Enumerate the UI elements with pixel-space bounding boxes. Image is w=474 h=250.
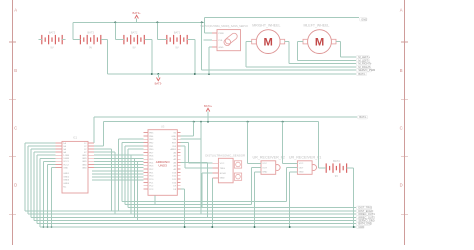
svg-text:BAT3+: BAT3+ bbox=[133, 11, 142, 15]
svg-text:VCC2: VCC2 bbox=[63, 164, 69, 166]
svg-text:MRIGHT_WHEEL: MRIGHT_WHEEL bbox=[252, 23, 280, 27]
svg-text:M: M bbox=[315, 37, 324, 49]
svg-text:TRIG: TRIG bbox=[220, 168, 226, 170]
svg-text:GND: GND bbox=[82, 155, 87, 157]
svg-text:PWR: PWR bbox=[219, 33, 225, 35]
svg-text:C: C bbox=[400, 125, 403, 130]
svg-text:BAT1: BAT1 bbox=[174, 30, 181, 34]
svg-text:SERVO(FUTABA_S3003)_SANS_SERVO: SERVO(FUTABA_S3003)_SANS_SERVO bbox=[200, 24, 248, 28]
svg-text:GND: GND bbox=[82, 167, 87, 169]
svg-text:GND: GND bbox=[82, 158, 87, 160]
svg-text:1-2EN: 1-2EN bbox=[63, 155, 69, 157]
svg-text:BAT3-: BAT3- bbox=[155, 82, 163, 86]
svg-text:D: D bbox=[400, 183, 403, 188]
svg-text:VCC1: VCC1 bbox=[63, 161, 69, 163]
svg-text:ECHO: ECHO bbox=[220, 173, 227, 175]
svg-text:D: D bbox=[14, 183, 17, 188]
svg-text:GND: GND bbox=[171, 136, 176, 138]
svg-text:9V: 9V bbox=[50, 46, 53, 50]
svg-text:BAT3: BAT3 bbox=[87, 30, 94, 34]
svg-text:UR_RECEIVER_#1: UR_RECEIVER_#1 bbox=[289, 155, 321, 159]
svg-text:VIN: VIN bbox=[173, 139, 177, 141]
svg-text:BAT4+: BAT4+ bbox=[204, 104, 213, 108]
svg-text:A: A bbox=[400, 8, 403, 13]
svg-text:DIST(ULTRASONIC_SENSOR: DIST(ULTRASONIC_SENSOR bbox=[205, 153, 245, 157]
svg-text:GND2: GND2 bbox=[63, 176, 70, 178]
svg-text:VCC: VCC bbox=[299, 163, 304, 165]
svg-text:GND1: GND1 bbox=[63, 173, 70, 175]
svg-text:MLEFT_WHEEL: MLEFT_WHEEL bbox=[304, 23, 330, 27]
svg-text:SERVO_PWM: SERVO_PWM bbox=[358, 68, 375, 72]
svg-text:GND3: GND3 bbox=[63, 180, 70, 182]
svg-text:RST: RST bbox=[172, 142, 177, 144]
svg-text:GND4: GND4 bbox=[63, 183, 70, 185]
svg-text:NC: NC bbox=[63, 187, 67, 189]
svg-text:GND: GND bbox=[358, 225, 364, 229]
svg-text:9V: 9V bbox=[175, 46, 178, 50]
svg-text:GND: GND bbox=[82, 164, 87, 166]
svg-text:GND: GND bbox=[63, 167, 68, 169]
svg-text:GND: GND bbox=[299, 172, 304, 174]
svg-text:3-4EN: 3-4EN bbox=[63, 158, 69, 160]
svg-text:BAT3-: BAT3- bbox=[358, 72, 365, 76]
svg-text:OUT: OUT bbox=[299, 167, 304, 169]
svg-text:GND: GND bbox=[262, 172, 267, 174]
svg-text:GND: GND bbox=[361, 17, 367, 21]
svg-text:9V: 9V bbox=[335, 174, 338, 178]
svg-text:BAT5: BAT5 bbox=[49, 30, 56, 34]
svg-text:GND: GND bbox=[219, 47, 224, 49]
svg-text:IC1: IC1 bbox=[73, 136, 78, 140]
svg-text:VCC: VCC bbox=[220, 163, 225, 165]
svg-text:GND: GND bbox=[82, 161, 87, 163]
svg-text:9V: 9V bbox=[132, 46, 135, 50]
svg-text:B: B bbox=[400, 68, 403, 73]
svg-text:OUT: OUT bbox=[262, 167, 267, 169]
svg-text:UR_RECEIVER_#2: UR_RECEIVER_#2 bbox=[253, 155, 285, 159]
svg-text:VCC: VCC bbox=[262, 163, 267, 165]
svg-text:B: B bbox=[14, 68, 17, 73]
svg-text:9V: 9V bbox=[89, 46, 92, 50]
svg-text:A: A bbox=[14, 8, 17, 13]
svg-text:BAT4-: BAT4- bbox=[359, 115, 366, 119]
svg-text:AREF: AREF bbox=[170, 148, 176, 151]
svg-text:BAT4: BAT4 bbox=[333, 159, 340, 163]
svg-text:C: C bbox=[14, 125, 17, 130]
svg-text:U3: U3 bbox=[161, 124, 165, 128]
svg-text:M: M bbox=[264, 37, 273, 49]
svg-text:UNO3: UNO3 bbox=[158, 164, 167, 168]
svg-text:GND: GND bbox=[220, 178, 225, 180]
svg-text:BAT2: BAT2 bbox=[131, 30, 138, 34]
